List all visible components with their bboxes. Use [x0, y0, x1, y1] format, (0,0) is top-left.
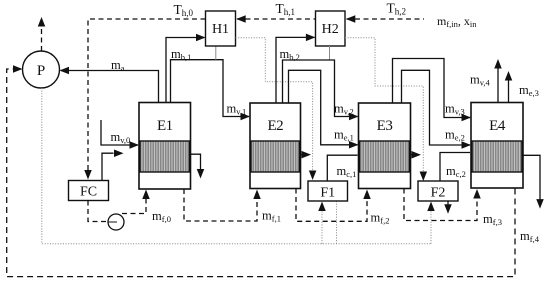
wire m_v,2 (E2 top to E3 left): [283, 60, 358, 117]
wire m_f,2 (dashed, E2 bottom to E3 bottom): [296, 189, 367, 222]
wire m_e,2 (E3 top to E4 left): [402, 70, 471, 145]
E4 tube bundle: [472, 141, 522, 172]
svg-text:Th,0: Th,0: [174, 2, 194, 18]
wire m_e,3 (up arrow): [508, 79, 510, 103]
svg-text:mv,0: mv,0: [111, 130, 131, 145]
svg-text:F2: F2: [431, 186, 446, 201]
wire m_b,1 (E1 top to heater H1): [166, 38, 205, 103]
svg-text:E2: E2: [267, 118, 283, 134]
svg-text:FC: FC: [80, 185, 97, 200]
svg-text:H1: H1: [212, 22, 229, 37]
svg-text:E4: E4: [489, 118, 506, 134]
wire T_h,1 (dashed, into H1 right): [237, 18, 316, 20]
svg-text:mv,1: mv,1: [227, 102, 247, 117]
wire E1 condensate drain: [191, 154, 201, 170]
svg-text:mf,3: mf,3: [483, 212, 502, 227]
svg-text:E1: E1: [157, 118, 173, 134]
wire m_b,2 (E2 top to heater H2): [276, 37, 315, 103]
wire FC output arrow: [102, 153, 114, 180]
svg-text:mc,1: mc,1: [337, 164, 357, 179]
wire dotted drop from F1 bottom: [336, 201, 338, 244]
wire E2 distillate to F1: [301, 154, 303, 156]
svg-text:mf,in, xin: mf,in, xin: [437, 14, 477, 29]
svg-text:P: P: [37, 63, 45, 79]
wire pump discharge (dashed up arrow): [41, 26, 43, 51]
wire m_v,1 (E1 top to E2 left): [171, 60, 250, 117]
wire H1 outlet stub: [215, 46, 217, 60]
wire m_v,0 (steam into E1 left): [101, 120, 138, 145]
pump P: [23, 51, 60, 88]
svg-text:me,2: me,2: [445, 128, 465, 143]
svg-text:mv,4: mv,4: [470, 73, 491, 88]
svg-text:Th,1: Th,1: [276, 1, 296, 17]
wire H2 condensate (dotted, H2 right to F2 top): [345, 38, 423, 173]
effect E1: [139, 103, 191, 190]
wire pump product line (dotted, P bottom to right): [42, 88, 431, 244]
heater H1: [206, 11, 236, 46]
wire m_f,3 (dashed, E3 bottom to E4 bottom): [404, 189, 477, 221]
svg-text:mv,3: mv,3: [445, 102, 465, 117]
wire H1 condensate (dotted, H1 right to F1 top): [236, 38, 313, 172]
svg-text:mc,2: mc,2: [446, 164, 466, 179]
wire T_h,0 (dashed, H1 left to FC): [88, 19, 206, 177]
svg-text:ma: ma: [111, 58, 125, 73]
effect E3: [359, 103, 411, 189]
valve: [108, 214, 124, 230]
controller FC: [69, 181, 109, 201]
svg-text:me,3: me,3: [519, 83, 539, 98]
svg-text:mf,4: mf,4: [520, 229, 540, 244]
wire dotted riser into F2 bottom: [430, 205, 432, 244]
wire m_v,3 (E3 top to E4 left): [393, 59, 471, 118]
wire F2 blowdown arrow: [447, 201, 449, 205]
svg-text:mf,1: mf,1: [262, 209, 281, 224]
E2 tube bundle: [251, 141, 300, 172]
wire m_f,0 (dashed, valve to E1 bottom): [122, 192, 146, 214]
E3 tube bundle: [360, 141, 410, 172]
wire m_e,1 (E2 top to E3 left): [289, 70, 358, 145]
E1 tube bundle: [140, 141, 190, 172]
heater H2: [316, 11, 346, 46]
svg-text:F1: F1: [320, 186, 335, 201]
flash tank F1: [308, 181, 348, 201]
wire H2 outlet stub: [329, 46, 331, 60]
wire E3 distillate to F2: [411, 154, 413, 156]
wire dotted riser into F1 bottom: [321, 205, 323, 244]
wire T_h,2 (dashed, into H2 right): [347, 18, 425, 20]
wire m_v,4 (E4 vapor out, up arrow): [497, 67, 499, 103]
svg-text:H2: H2: [322, 22, 339, 37]
effect E4: [471, 103, 523, 189]
wire E4 condensate drain: [523, 155, 540, 200]
svg-text:me,1: me,1: [334, 128, 354, 143]
svg-text:mf,2: mf,2: [371, 211, 390, 226]
wire m_c,1 (F1 vapor to E3 left): [327, 155, 357, 181]
wire m_f,4 recycle (dashed: E4 bottom, bottom bus, up left side into P): [7, 69, 515, 277]
svg-text:Th,2: Th,2: [387, 1, 407, 17]
svg-text:mv,2: mv,2: [334, 102, 354, 117]
wire m_c,2 (F2 vapor to E4 left): [440, 153, 470, 182]
flash tank F2: [418, 181, 458, 201]
wire m_a (E1 top to pump P): [61, 71, 159, 103]
wire FC to valve (dashed): [88, 201, 107, 222]
svg-text:E3: E3: [377, 118, 393, 134]
svg-text:mf,0: mf,0: [152, 209, 171, 224]
wire m_f,1 (dashed, E1 bottom to E2 bottom): [184, 189, 257, 221]
effect E2: [250, 103, 301, 189]
